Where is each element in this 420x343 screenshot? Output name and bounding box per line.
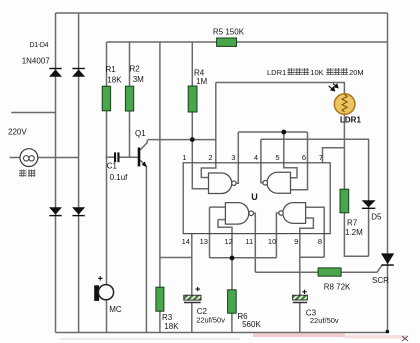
svg-text:18K: 18K	[107, 76, 122, 85]
svg-text:6: 6	[302, 153, 306, 162]
svg-text:1: 1	[182, 153, 186, 162]
svg-text:1M: 1M	[196, 77, 207, 86]
svg-text:5: 5	[275, 153, 279, 162]
svg-text:R7: R7	[347, 219, 358, 228]
svg-text:R4: R4	[194, 69, 205, 78]
svg-text:R5 150K: R5 150K	[213, 27, 245, 36]
svg-text:C1: C1	[107, 162, 118, 171]
svg-text:3M: 3M	[133, 75, 144, 84]
svg-text:0.1uf: 0.1uf	[110, 173, 129, 182]
svg-text:10K: 10K	[310, 68, 323, 77]
svg-text:7: 7	[319, 153, 323, 162]
svg-text:U: U	[251, 192, 257, 202]
svg-text:220V: 220V	[8, 127, 27, 136]
svg-text:SCR: SCR	[372, 276, 389, 285]
svg-text:MC: MC	[109, 305, 122, 314]
svg-text:8: 8	[318, 237, 322, 246]
svg-text:LDR1: LDR1	[267, 68, 286, 77]
svg-text:D5: D5	[371, 213, 382, 222]
svg-text:1N4007: 1N4007	[22, 57, 51, 66]
svg-text:560K: 560K	[242, 320, 261, 329]
svg-text:22uf/50v: 22uf/50v	[310, 316, 339, 325]
svg-text:4: 4	[254, 153, 258, 162]
svg-text:3: 3	[231, 153, 235, 162]
svg-text:13: 13	[200, 237, 208, 246]
svg-text:LDR1: LDR1	[340, 115, 361, 124]
svg-text:11: 11	[245, 237, 253, 246]
svg-text:14: 14	[182, 237, 190, 246]
svg-text:1.2M: 1.2M	[345, 228, 363, 237]
svg-text:Q1: Q1	[135, 129, 146, 138]
svg-text:2: 2	[208, 153, 212, 162]
svg-text:R1: R1	[106, 65, 117, 74]
svg-text:R3: R3	[162, 313, 173, 322]
svg-text:20M: 20M	[349, 68, 364, 77]
svg-text:12: 12	[224, 237, 232, 246]
svg-text:R8 72K: R8 72K	[324, 282, 351, 291]
svg-text:22uf/50v: 22uf/50v	[196, 316, 225, 325]
svg-text:D1-D4: D1-D4	[30, 42, 49, 49]
svg-text:9: 9	[294, 237, 298, 246]
svg-text:R2: R2	[130, 64, 141, 73]
svg-text:18K: 18K	[164, 322, 179, 331]
svg-text:10: 10	[268, 237, 276, 246]
